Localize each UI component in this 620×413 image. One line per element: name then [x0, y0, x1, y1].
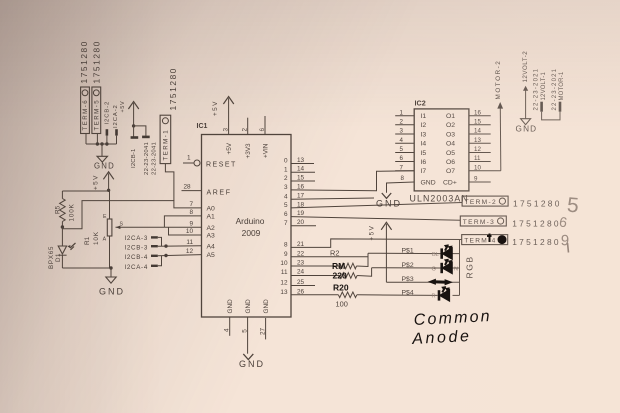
junction node +5V sensor: [107, 189, 110, 192]
label 22-23-2021 (MOTOR-1): [552, 68, 558, 111]
pin 11 label (IC2): [474, 155, 481, 162]
label O3 inside IC2: [446, 131, 455, 138]
svg-text:GND: GND: [94, 161, 115, 170]
svg-text:GND: GND: [245, 299, 252, 314]
label MOTOR-2: [495, 60, 502, 100]
pin 27 label: [260, 327, 267, 335]
node I2CB-4 stub: [151, 255, 158, 257]
svg-text:I2CB-2: I2CB-2: [104, 101, 110, 125]
svg-text:A: A: [103, 237, 107, 243]
label digital pin 3 inside IC1: [284, 184, 288, 191]
label digital pin 7 inside IC1: [284, 220, 288, 227]
pin 10 stub (IC2 O7): [469, 170, 501, 172]
label A (pot bottom): [103, 237, 107, 243]
pencil annotations group: [558, 194, 580, 253]
svg-text:12: 12: [186, 248, 194, 255]
wire I2CB-3 to A4: [158, 245, 202, 247]
svg-text:+5V: +5V: [226, 142, 233, 154]
LED green (hand-inked): [442, 259, 452, 273]
svg-text:Arduino: Arduino: [236, 216, 265, 226]
pin 4 label (IC2): [400, 137, 404, 144]
svg-text:TERM-6: TERM-6: [82, 99, 89, 131]
resistor row2 220: [340, 273, 358, 279]
label I2CA-4: [125, 264, 148, 271]
pin 15 label (D2): [297, 175, 305, 182]
node 12VOLT-2 arrow: [523, 86, 528, 91]
resistor row3 100: [338, 292, 356, 298]
label A2 inside IC1: [207, 225, 216, 232]
label S (pot wiper): [120, 221, 124, 227]
svg-text:I2CA-4: I2CA-4: [125, 264, 148, 271]
wire 12VOLT-2 to GND: [525, 91, 527, 119]
ground symbol (sensor): [106, 277, 116, 283]
pin 12 label (A5): [186, 248, 194, 255]
label 100K: [69, 203, 76, 221]
label O5 inside IC2: [446, 150, 455, 157]
label I2CB-2: [104, 101, 110, 125]
svg-text:1751280: 1751280: [79, 40, 89, 84]
svg-text:2: 2: [242, 128, 249, 132]
pin 1 label (IC2): [400, 109, 404, 116]
svg-text:GND: GND: [239, 359, 265, 369]
power arrow +5V (IC1): [212, 97, 234, 135]
LED blue (hand-inked): [442, 245, 452, 259]
svg-text:A5: A5: [207, 252, 216, 259]
pin 10 label (IC2): [474, 164, 481, 171]
svg-text:22-23-2041: 22-23-2041: [144, 142, 150, 175]
connector TERM-2: [462, 196, 508, 206]
handwritten value R20: [333, 283, 349, 293]
svg-text:R5: R5: [54, 205, 61, 214]
part number label 1751280 (TERM-6): [79, 40, 89, 84]
svg-text:I2CB-1: I2CB-1: [131, 148, 137, 168]
ground symbol (IC2): [382, 193, 391, 198]
wire to 22-23-2041 pin 1: [133, 126, 135, 137]
svg-text:12: 12: [280, 280, 288, 287]
svg-text:25: 25: [297, 279, 305, 286]
svg-text:Anode: Anode: [411, 328, 472, 348]
pencil mark 6: [558, 213, 569, 230]
svg-text:5: 5: [242, 329, 249, 333]
label CD+ inside IC2: [443, 179, 457, 186]
wire D4 stub: [291, 198, 374, 199]
label BPX65: [48, 246, 55, 269]
wire D11 to R network row2: [291, 275, 340, 277]
node I2CB-2 stub: [106, 129, 109, 144]
label GND (IC1): [239, 359, 265, 369]
label IC2: [415, 99, 426, 108]
pin 5 stub (IC2 I5): [395, 152, 414, 154]
pencil mark 5: [566, 194, 580, 218]
svg-text:7: 7: [284, 220, 288, 227]
svg-text:8: 8: [284, 242, 288, 249]
label A4 inside IC1: [207, 243, 216, 250]
label O2 inside IC2: [446, 122, 455, 129]
pin 27 stub: [265, 318, 267, 339]
svg-text:A1: A1: [207, 214, 216, 221]
node I2CA-3 stub: [151, 236, 158, 238]
svg-text:RESET: RESET: [206, 162, 237, 169]
pin 11 label (A4): [186, 239, 193, 246]
wire row1 to P$1: [357, 253, 369, 266]
pin 23 label (D10): [297, 259, 305, 266]
label digital pin 2 inside IC1: [284, 175, 288, 182]
label 100: [336, 300, 348, 309]
pin stub 12VOLT-1: [540, 102, 543, 112]
connector TERM-3: [460, 216, 506, 226]
wire divider output to A0 rail: [62, 201, 201, 229]
wire D13 to R network row3: [291, 294, 338, 296]
label Arduino 2009: [236, 216, 265, 238]
svg-text:I2CB-3: I2CB-3: [125, 245, 148, 252]
op-amp/IC U1 Arduino 2009 body: [202, 135, 292, 318]
svg-text:6: 6: [259, 128, 266, 132]
pin 4 stub (IC2 I4): [395, 142, 414, 144]
pin 8 label (A1): [189, 209, 193, 216]
wire D7 stub: [291, 225, 316, 227]
connector TERM-1: [160, 115, 171, 163]
ink mark on TERM-4 circle: [487, 234, 506, 244]
svg-text:28: 28: [184, 184, 192, 191]
svg-text:20: 20: [297, 219, 305, 226]
svg-text:GND: GND: [263, 299, 270, 314]
svg-text:13: 13: [297, 157, 305, 164]
label O7 inside IC2: [446, 168, 455, 175]
wire P$2: [372, 267, 441, 269]
pin 3 label (IC1 +5V): [223, 128, 230, 132]
svg-text:3: 3: [223, 128, 230, 132]
svg-text:I2CB-4: I2CB-4: [125, 254, 148, 261]
svg-text:1751280: 1751280: [91, 40, 101, 84]
svg-text:6: 6: [284, 211, 288, 218]
pin 17 label (D4): [297, 193, 305, 200]
label GND (12VOLT-2): [516, 125, 538, 134]
pin 16 label (D3): [297, 183, 305, 190]
pin 9 label (A2): [189, 221, 193, 228]
svg-text:1: 1: [284, 166, 288, 173]
pin 18 label (D5): [297, 201, 305, 208]
svg-text:AREF: AREF: [207, 190, 232, 197]
label 12VOLT-1: [541, 72, 547, 101]
svg-text:22-23-2041: 22-23-2041: [152, 142, 158, 175]
label digital pin 6 inside IC1: [284, 211, 288, 218]
pin 9 stub (IC2 CD+): [469, 181, 491, 183]
svg-text:100: 100: [336, 300, 348, 309]
label O4 inside IC2: [446, 141, 455, 148]
pin 21 label (D8): [297, 241, 305, 248]
label RED (faint): [432, 294, 436, 300]
pin 7 stub (IC2 I7): [395, 170, 414, 172]
label I6 inside IC2: [421, 159, 427, 166]
pin 6 stub (IC2 I6): [395, 161, 414, 163]
connector TERM-4: [462, 235, 508, 245]
label +3V3 inside IC1: [245, 143, 252, 159]
svg-text:9: 9: [284, 251, 288, 258]
label GND inside IC2: [421, 179, 436, 186]
pin 10 label (A3): [186, 228, 194, 235]
svg-text:+5V: +5V: [212, 100, 219, 116]
pin 26 label (D13): [297, 288, 305, 295]
photodiode D1 BPX65: [58, 227, 75, 268]
svg-text:4: 4: [284, 193, 288, 200]
pin 2 stub (IC2 I2): [395, 124, 414, 126]
pin 15 label (IC2): [474, 118, 481, 125]
label 12VOLT-2: [522, 51, 529, 83]
wire TERM-6 to ground bus: [85, 134, 87, 145]
svg-text:RM: RM: [332, 261, 345, 271]
pin 22 label (D9): [297, 250, 305, 257]
label GREEN (faint): [432, 266, 459, 272]
pin 13 label (D0): [297, 157, 305, 164]
svg-text:22: 22: [297, 250, 305, 257]
label +5V inside IC1: [226, 142, 233, 154]
label I2CA-2: [113, 104, 119, 128]
svg-text:I2CA-2: I2CA-2: [113, 104, 119, 128]
handwritten value RM: [332, 261, 345, 271]
handwriting Anode: [411, 328, 472, 348]
part number label 1751280 (TERM-5): [91, 40, 101, 84]
svg-text:21: 21: [297, 241, 305, 248]
pin 14 label (D1): [297, 166, 305, 173]
wire bus to GND symbol: [101, 144, 103, 156]
pin 2 label: [242, 128, 249, 132]
label digital pin 5 inside IC1: [284, 202, 288, 209]
part number 1751280 (TERM-4): [512, 237, 561, 247]
pin 28 AREF stub: [182, 190, 202, 192]
label I5 inside IC2: [421, 150, 427, 157]
part number label 1751280 (TERM-1): [168, 67, 178, 111]
svg-text:11: 11: [281, 269, 288, 276]
node MOTOR-2 arrow: [497, 102, 503, 171]
label digital pin 12 inside IC1: [280, 280, 288, 287]
node I2CB-3 stub: [151, 245, 158, 247]
wire D12 stub: [291, 285, 315, 287]
wire +5V to R5: [62, 190, 108, 192]
label P$1: [402, 248, 414, 255]
pencil mark 9: [560, 232, 569, 252]
label R1: [84, 236, 91, 245]
potentiometer R1 10K: [107, 190, 164, 268]
svg-text:+5V: +5V: [368, 225, 375, 241]
pin 25 label (D12): [297, 279, 305, 286]
resistor row1 220: [340, 263, 357, 269]
label GND (sensor): [99, 287, 125, 297]
svg-text:TERM-5: TERM-5: [94, 99, 101, 131]
pin 1 label: [187, 155, 191, 162]
label I2CB-4: [125, 254, 148, 261]
svg-text:+5V: +5V: [93, 174, 100, 190]
label I4 inside IC2: [421, 141, 427, 148]
label O1 inside IC2: [446, 113, 455, 120]
pin 8 label (IC2): [401, 175, 405, 182]
label E (pot top): [103, 214, 107, 220]
svg-text:7: 7: [189, 201, 193, 208]
svg-text:10: 10: [280, 260, 288, 267]
label I3 inside IC2: [421, 131, 427, 138]
connector TERM-5: [92, 87, 101, 134]
label digital pin 11 inside IC1: [281, 269, 288, 276]
pin 6 label (IC2): [400, 155, 404, 162]
svg-text:19: 19: [297, 210, 305, 217]
power arrow +5V (I2C-1 header): [128, 102, 138, 126]
pin 11 stub (IC2 O6): [469, 161, 491, 163]
svg-text:D1: D1: [55, 253, 62, 262]
power arrow +5V (LED): [368, 222, 391, 282]
label GND inside IC1 (pin4): [227, 299, 234, 314]
label AREF: [207, 190, 232, 197]
wire TERM-5 to ground bus: [96, 134, 98, 145]
label I2 inside IC2: [421, 122, 427, 129]
wire P$1: [368, 252, 441, 254]
wire I2CA-3 to row2: [158, 237, 162, 246]
pin 3 label (IC2): [400, 128, 404, 135]
label 22-23-2041 (second): [152, 142, 158, 175]
label +VIN inside IC1: [262, 143, 269, 158]
svg-text:3: 3: [284, 184, 288, 191]
pin 4 label: [224, 328, 231, 332]
label I2CB-1: [131, 148, 137, 168]
pin 2 label (IC2): [400, 118, 404, 125]
pin 16 label (IC2): [474, 109, 481, 116]
label R5: [54, 205, 61, 214]
svg-text:S: S: [120, 221, 124, 227]
label digital pin 13 inside IC1: [280, 289, 288, 296]
svg-text:+3V3: +3V3: [245, 143, 252, 159]
label O6 inside IC2: [446, 159, 455, 166]
pin 12 stub (IC2 O5): [469, 152, 491, 154]
label RESET: [206, 162, 237, 169]
svg-text:TERM-1: TERM-1: [163, 129, 170, 161]
pin 20 label (D7): [297, 219, 305, 226]
pin stub 22-23-2041 pin1: [131, 136, 139, 139]
svg-text:4: 4: [224, 328, 231, 332]
wire D3 to IC2 I7: [291, 171, 414, 191]
svg-text:1: 1: [187, 155, 191, 162]
ground bus wire: [86, 143, 117, 145]
svg-text:23: 23: [297, 259, 305, 266]
label BLUE (faint): [432, 252, 439, 258]
pin 6 label: [259, 128, 266, 132]
pin 5 label (IC2): [400, 146, 404, 153]
handwriting Common: [413, 308, 492, 329]
svg-text:BPX65: BPX65: [48, 246, 55, 269]
wire row2 to P$2: [357, 268, 372, 277]
svg-text:A4: A4: [207, 243, 216, 250]
svg-text:15: 15: [297, 175, 305, 182]
ground symbol (header GND): [97, 156, 108, 162]
label GND inside IC1 (pin27): [263, 299, 270, 314]
pin 2 stub (IC1 +3V3): [247, 118, 249, 135]
svg-text:26: 26: [297, 288, 305, 295]
label RGB: [464, 255, 474, 278]
pin 3 stub (IC2 I3): [395, 133, 414, 135]
pin 7 label (IC2): [400, 164, 404, 171]
svg-text:13: 13: [280, 289, 288, 296]
svg-text:GND: GND: [227, 299, 234, 314]
wire diode to bottom rail: [62, 267, 111, 269]
svg-text:2009: 2009: [242, 228, 261, 238]
pin stub 22-23-2041 pin2: [142, 136, 150, 139]
label digital pin 1 inside IC1: [284, 166, 288, 173]
svg-text:220: 220: [333, 271, 347, 281]
svg-text:A3: A3: [207, 233, 216, 240]
wire D8 to TERM-4: [291, 239, 462, 248]
label P$2: [402, 262, 414, 269]
pin stub MOTOR-1: [559, 102, 562, 112]
label 22-23-2021 (12VOLT-1): [534, 68, 540, 111]
svg-text:+VIN: +VIN: [262, 143, 269, 158]
wire I2CB-4 to A5: [158, 255, 202, 256]
pin 13 label (IC2): [474, 137, 481, 144]
label I2CB-3: [125, 245, 148, 252]
label GND (header): [94, 161, 115, 170]
wire D1 stub: [291, 171, 315, 173]
label digital pin 4 inside IC1: [284, 193, 288, 200]
wire LED anodes common rail: [453, 240, 460, 296]
svg-text:14: 14: [297, 166, 305, 173]
wire D6 to TERM-3: [291, 217, 460, 221]
wire TERM-1 to A0 net: [165, 164, 174, 201]
label A3 inside IC1: [207, 233, 216, 240]
svg-text:8: 8: [189, 209, 193, 216]
svg-text:IC1: IC1: [197, 123, 208, 130]
ground symbol (12VOLT-2): [521, 119, 531, 125]
LED red (hand-inked): [439, 287, 449, 301]
label ULN2003AN: [410, 194, 469, 204]
svg-text:0: 0: [284, 158, 288, 165]
pin 4 stub: [229, 317, 231, 336]
pin 5 wire to GND: [247, 317, 249, 354]
label digital pin 8 inside IC1: [284, 242, 288, 249]
wire wiper to A1: [164, 216, 201, 227]
svg-text:11: 11: [186, 239, 193, 246]
svg-text:5: 5: [284, 202, 288, 209]
wire O7 to MOTOR-2: [0, 0, 1, 1]
wire D9 to P$1 net: [291, 256, 368, 258]
label digital pin 10 inside IC1: [280, 260, 288, 267]
part number 1751280 (TERM-3): [512, 219, 561, 229]
junction dots on ground bus: [96, 142, 109, 145]
pin 1 stub (IC2 I1): [395, 115, 414, 117]
pin 7 label (A0): [189, 201, 193, 208]
pin 28 label: [184, 184, 192, 191]
pin 8 wire to GND (IC2): [387, 182, 415, 193]
label I7 inside IC2: [421, 168, 427, 175]
label GND inside IC1 (pin5): [245, 299, 252, 314]
svg-text:10K: 10K: [93, 231, 100, 245]
label I2CA-3: [125, 235, 148, 242]
svg-text:10: 10: [186, 228, 194, 235]
label GND (IC2): [376, 199, 402, 209]
power arrow +5V (sensor): [93, 172, 114, 191]
connector TERM-6: [81, 87, 90, 134]
label R2: [330, 249, 339, 258]
junction node A5 net: [164, 254, 167, 257]
junction node A4 net: [164, 244, 167, 247]
label +5V small (I2C header): [120, 101, 126, 113]
junction node bottom rail: [109, 266, 112, 269]
wire +5V to P$3: [386, 281, 459, 283]
wire A3 tap: [169, 227, 202, 235]
label 22-23-2041 (first): [144, 142, 150, 175]
pin 1 RESET stub with bubble: [183, 160, 200, 166]
svg-text:A2: A2: [207, 225, 216, 232]
wire P$4: [357, 294, 438, 297]
wire D5 to TERM-2: [291, 203, 462, 208]
label D1: [55, 253, 62, 262]
pin 15 stub (IC2 O2): [469, 124, 491, 126]
hand-inked annotations group: [332, 234, 506, 349]
